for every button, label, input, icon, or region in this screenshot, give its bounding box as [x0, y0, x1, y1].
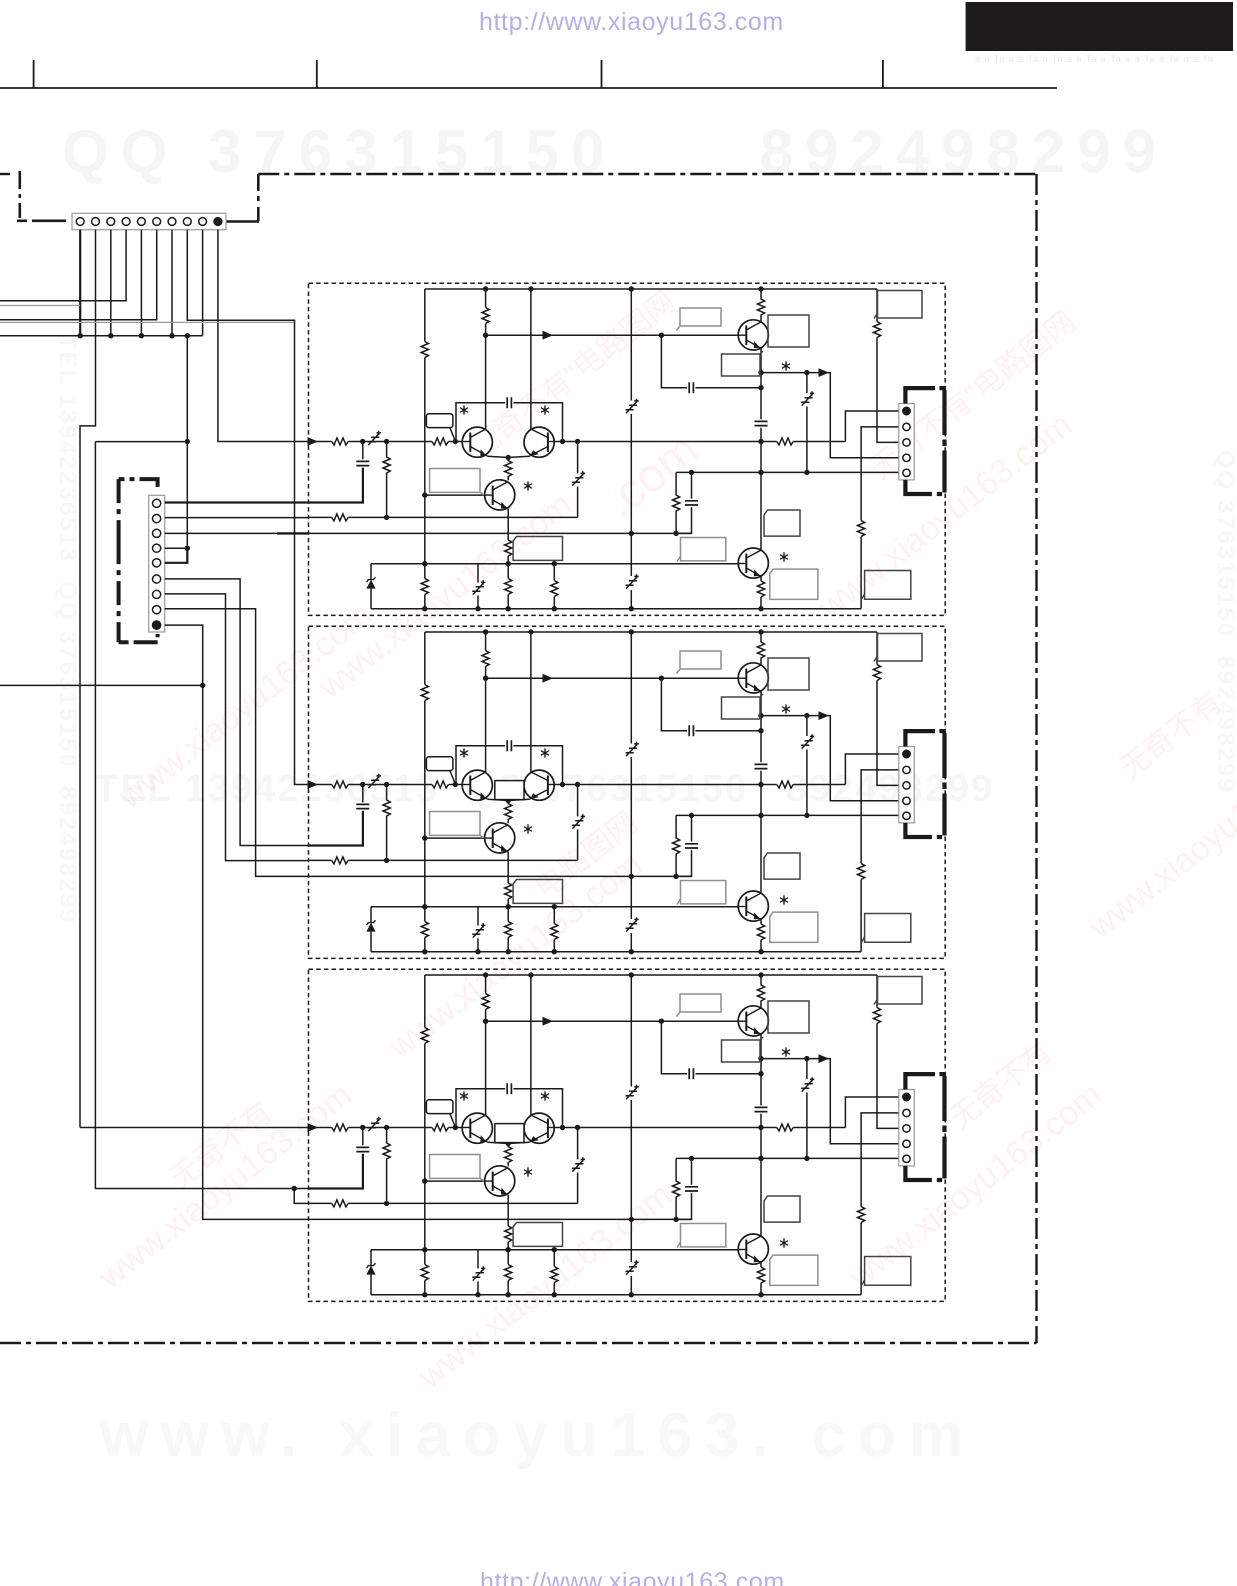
wire J1-4 to left edge — [0, 230, 126, 301]
svg-text:http://www.xiaoyu163.com: http://www.xiaoyu163.com — [480, 1568, 785, 1586]
wire J2-3 to block1 fb — [165, 532, 309, 534]
wire J1-7 down — [171, 230, 173, 336]
wire J1-3 down — [110, 230, 112, 336]
wire J1-9 down — [202, 230, 204, 336]
J1 pin 7 — [168, 218, 176, 226]
bracket bottom — [119, 634, 158, 642]
J1 pin 9 — [199, 218, 207, 226]
J2 pin 7 — [153, 590, 161, 598]
J1 pin 6 — [153, 218, 161, 226]
page frame: wire J1 to riser — [226, 220, 259, 223]
J2 pin 6 — [153, 575, 161, 583]
top ruled line — [0, 87, 1057, 89]
J2 pin 3 — [153, 529, 161, 537]
page frame: top edge — [258, 173, 1036, 175]
wire J1-5 down — [140, 230, 142, 336]
stub line y685 — [0, 684, 203, 686]
svg-text:QQ 376315150 892498299: QQ 376315150 892498299 — [62, 118, 1168, 185]
wire J1-8 to block2 input riser — [187, 230, 308, 785]
J1 pin 5 — [138, 218, 146, 226]
J2 pin 9 — [153, 621, 161, 629]
page dash-dot frame: top-left entry dash — [0, 173, 10, 175]
J2 pin 5 — [153, 559, 161, 567]
J1 pin 8 — [183, 218, 191, 226]
J2 pin 2 — [153, 515, 161, 523]
connector J2 body — [149, 495, 165, 632]
page dash-dot frame: stub into connector J1 — [17, 220, 72, 223]
amplifier block 2 — [308, 626, 946, 958]
page frame: riser — [257, 174, 260, 222]
J1 pin 10 — [214, 218, 222, 226]
wire J2-5 thick — [165, 548, 188, 563]
connector J2 bracket (dash-dot) — [119, 479, 158, 487]
wire J2-9 to block3 fb — [165, 625, 309, 1219]
label box LB11 (block2) — [495, 781, 524, 800]
label box LB12 (block3) — [495, 1124, 524, 1143]
riser x187 — [186, 336, 188, 549]
bus line y335 — [0, 335, 203, 337]
tick 2 — [316, 60, 318, 88]
wire J2-2 to block1 bias — [165, 517, 309, 519]
svg-text:TEL 13942236513 QQ 376315150: TEL 13942236513 QQ 376315150 892498299 — [54, 335, 81, 924]
J2 pin 8 — [153, 606, 161, 614]
page frame: bottom edge — [0, 1342, 1037, 1344]
wire J1-6 to left edge — [0, 230, 157, 320]
junction dots on bus y335 — [78, 333, 191, 338]
J2 pin 4 — [153, 544, 161, 552]
amplifier block 1 — [308, 283, 946, 615]
svg-text:a a Ta a a Ta a Ta a a Ta a Ta: a a Ta a a Ta a Ta a a Ta a Ta a a Ta a … — [975, 54, 1214, 64]
page dash-dot frame: left drop — [18, 171, 21, 218]
net line y441 — [95, 441, 187, 443]
J2 pin 1 — [153, 499, 161, 507]
stub line y305 (gray) — [0, 305, 80, 307]
wire J1-10 to block1 input — [218, 230, 309, 442]
J1 pin 1 — [76, 218, 84, 226]
J1 pin 4 — [122, 218, 130, 226]
stub line y322 (gray) — [0, 321, 294, 323]
wire J1-2 down with jog — [80, 230, 96, 1128]
J1 pin 3 — [107, 218, 115, 226]
wire J2-1 thick to block1 — [165, 501, 309, 503]
svg-text:www. xiaoyu163. com: www. xiaoyu163. com — [99, 1401, 976, 1470]
junction dot — [185, 439, 190, 444]
page frame: right edge — [1035, 174, 1037, 1343]
wire J2-6 to block2 cap line — [165, 579, 309, 846]
junction dot — [200, 683, 205, 688]
amplifier block 3 — [308, 969, 946, 1301]
wire J1-1 down — [79, 230, 81, 336]
tick 4 — [882, 60, 884, 88]
tick 3 — [601, 60, 603, 88]
J1 pin 2 — [92, 218, 100, 226]
bracket left edge — [117, 479, 121, 642]
wire J2-7 to block2 bias — [165, 594, 309, 861]
wire J2-4 — [165, 547, 188, 549]
branch to block3 bias line — [294, 1189, 308, 1204]
wire J2-8 to block2 fb — [165, 609, 309, 877]
tick 1 — [33, 60, 35, 88]
junction dot branch — [292, 1186, 297, 1191]
wire block3 input feed — [80, 1127, 309, 1129]
title block (black) — [966, 2, 1233, 51]
svg-text:http://www.xiaoyu163.com: http://www.xiaoyu163.com — [479, 8, 784, 36]
svg-text:QQ 376315150 892498299: QQ 376315150 892498299 — [1212, 450, 1237, 794]
junction dot J2-4/5 — [185, 546, 190, 551]
riser x95 to block3 — [95, 442, 308, 1189]
connector J1 body — [72, 213, 226, 229]
